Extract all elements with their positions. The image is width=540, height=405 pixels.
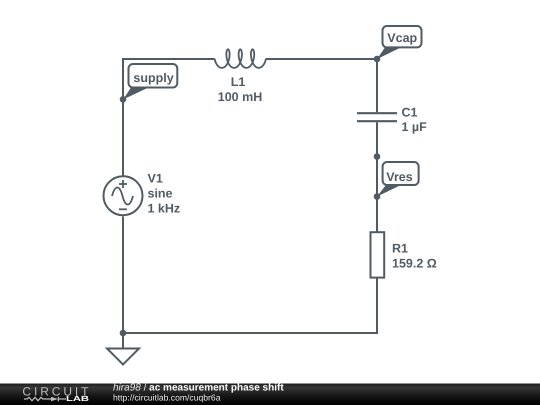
svg-text:Vres: Vres xyxy=(386,170,412,184)
svg-text:159.2 Ω: 159.2 Ω xyxy=(392,257,437,271)
svg-text:Vcap: Vcap xyxy=(387,31,417,45)
svg-text:1 µF: 1 µF xyxy=(402,120,428,134)
svg-text:sine: sine xyxy=(148,187,173,201)
svg-text:supply: supply xyxy=(133,71,173,85)
svg-text:LAB: LAB xyxy=(66,394,90,403)
svg-text:C1: C1 xyxy=(402,106,418,120)
svg-text:L1: L1 xyxy=(231,75,246,89)
svg-text:R1: R1 xyxy=(392,242,408,256)
svg-text:1 kHz: 1 kHz xyxy=(148,202,181,216)
svg-text:100 mH: 100 mH xyxy=(218,90,262,104)
svg-text:V1: V1 xyxy=(148,172,163,186)
svg-text:http://circuitlab.com/cuqbr6a: http://circuitlab.com/cuqbr6a xyxy=(113,393,221,403)
